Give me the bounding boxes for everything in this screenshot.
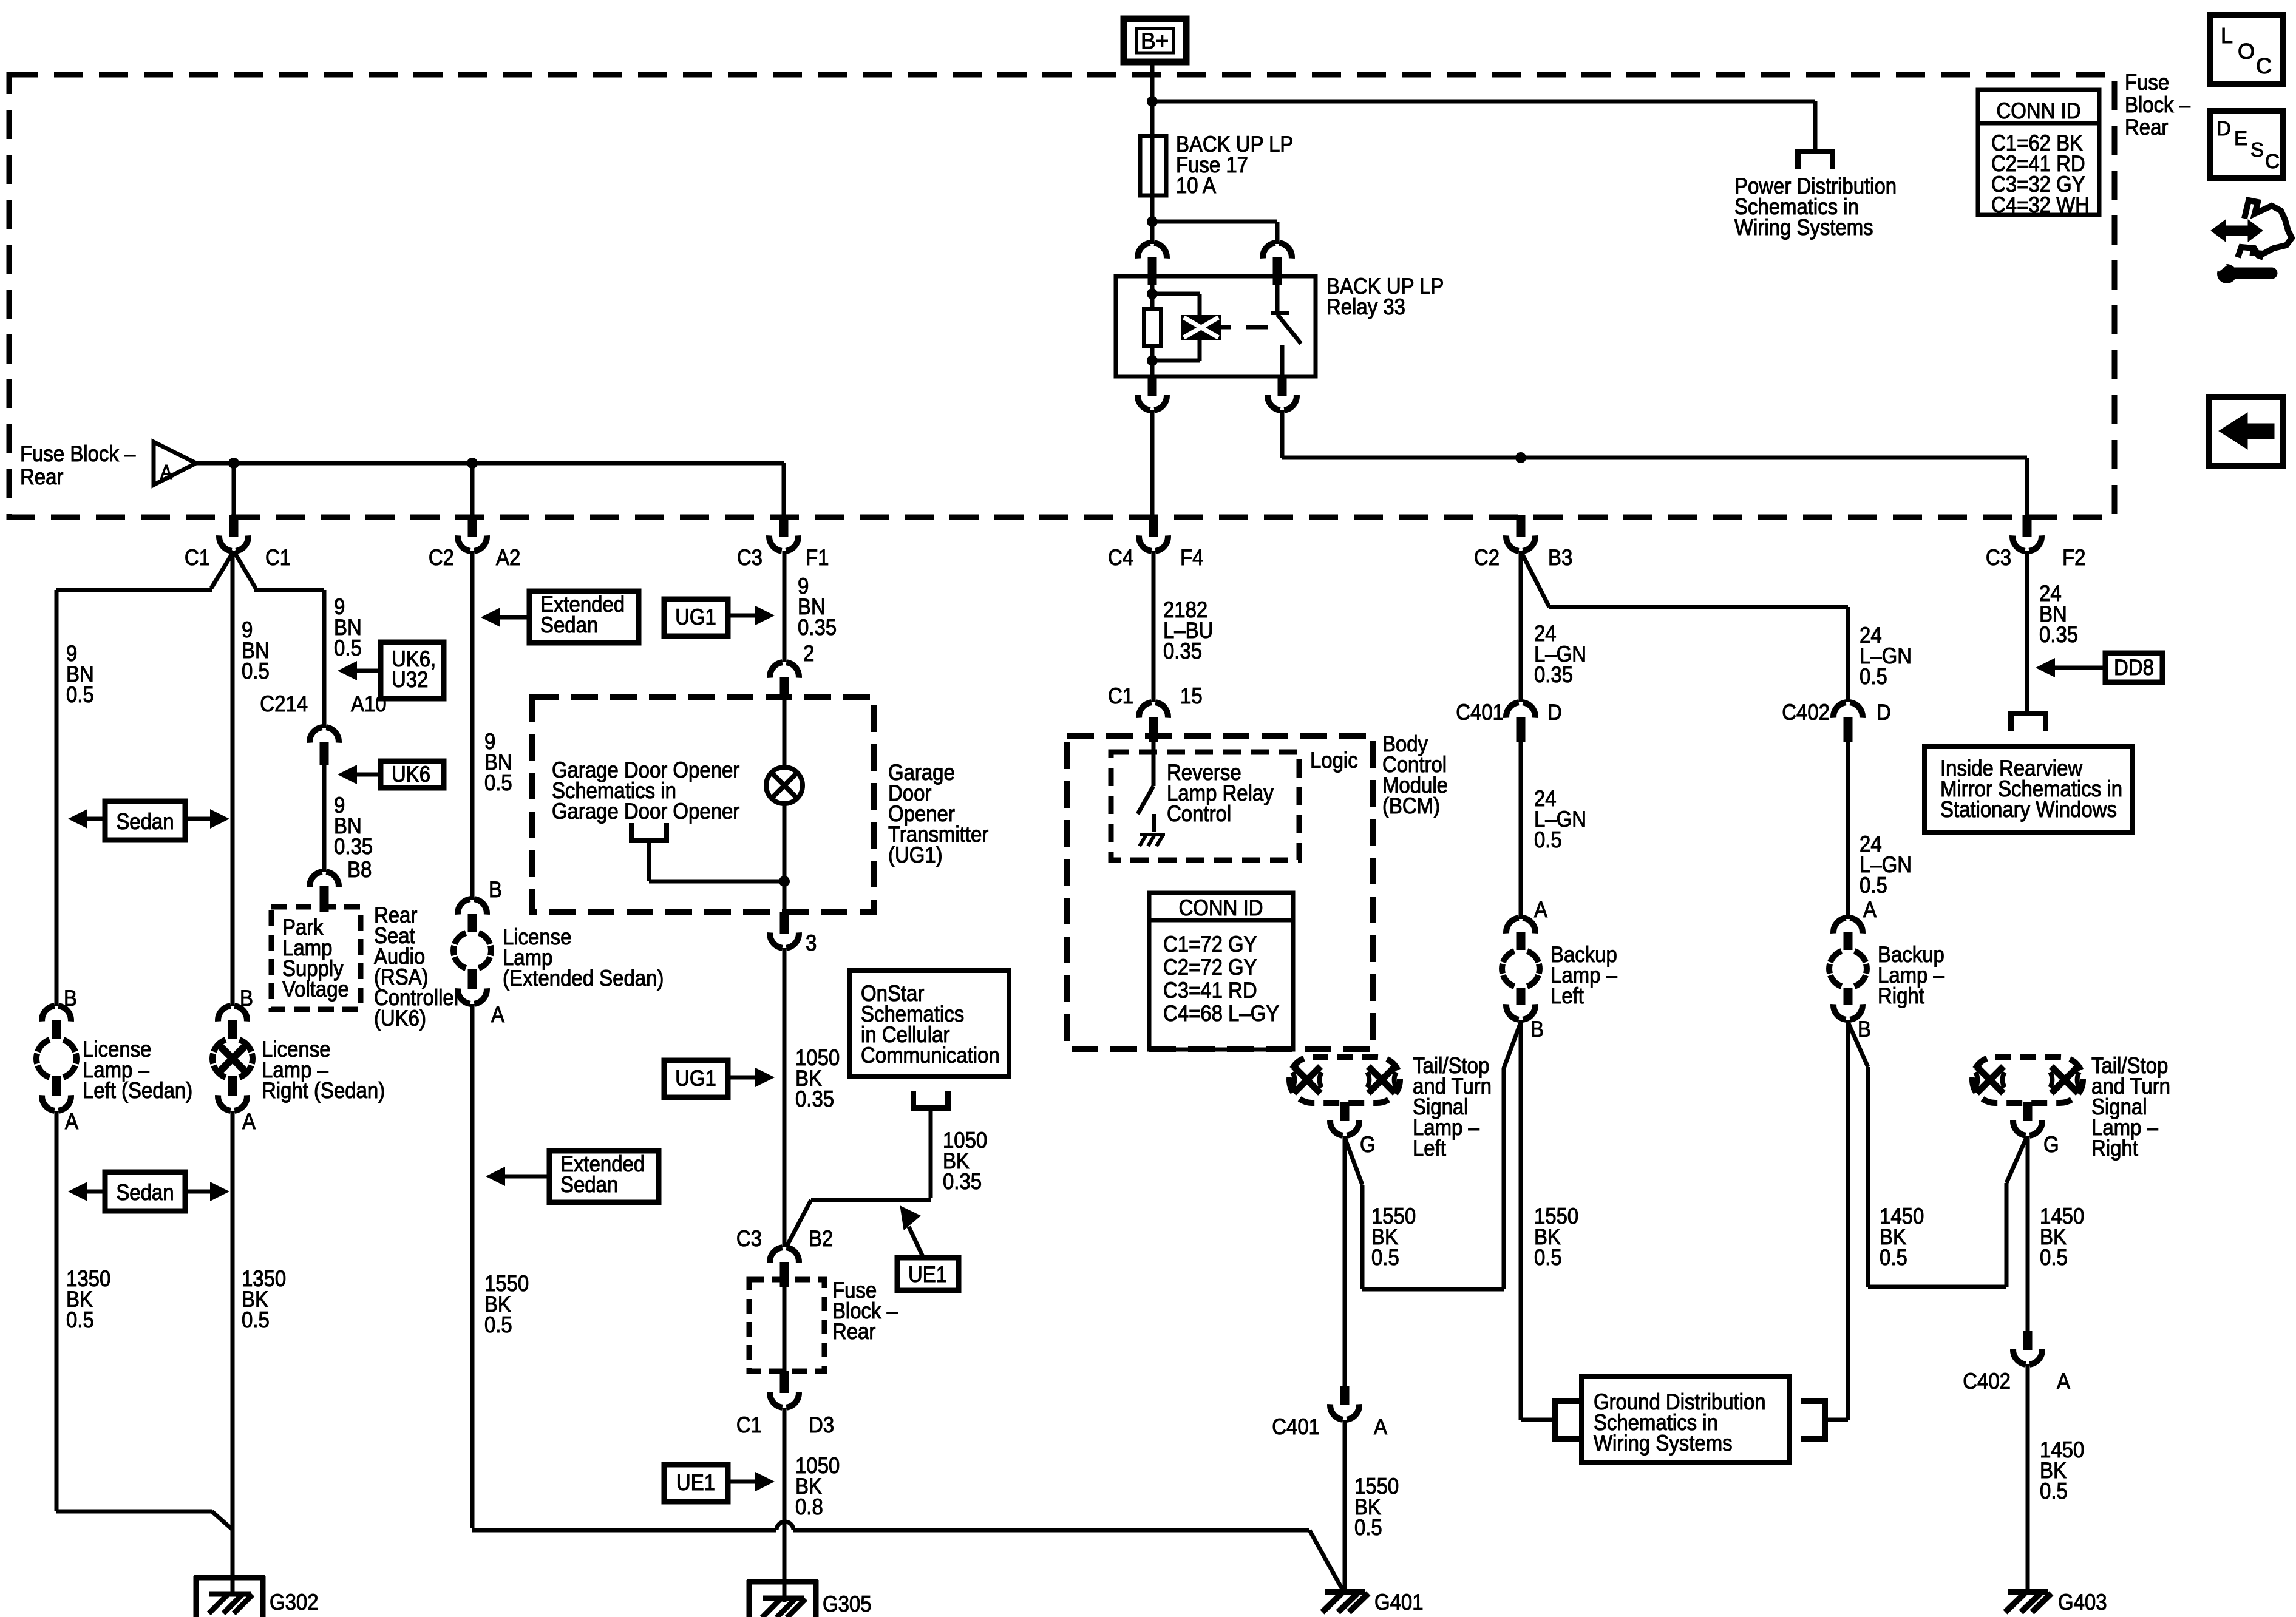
svg-text:0.5: 0.5 — [66, 682, 94, 707]
svg-text:D: D — [1877, 700, 1891, 725]
svg-text:C402: C402 — [1782, 700, 1830, 725]
svg-text:C2: C2 — [1474, 545, 1500, 570]
svg-text:15: 15 — [1180, 683, 1203, 708]
svg-text:B+: B+ — [1141, 29, 1169, 53]
svg-text:C4=32 WH: C4=32 WH — [1991, 192, 2090, 217]
svg-text:0.8: 0.8 — [795, 1494, 823, 1519]
svg-text:F2: F2 — [2062, 545, 2085, 570]
svg-text:A10: A10 — [351, 691, 387, 716]
svg-text:Right: Right — [1878, 983, 1924, 1008]
svg-text:C1: C1 — [185, 545, 210, 570]
svg-text:A: A — [242, 1109, 256, 1134]
svg-text:E: E — [2234, 127, 2247, 149]
svg-text:0.35: 0.35 — [798, 615, 837, 640]
svg-text:0.5: 0.5 — [334, 636, 362, 660]
svg-text:A: A — [1374, 1414, 1388, 1439]
svg-text:C4=68 L–GY: C4=68 L–GY — [1163, 1001, 1279, 1026]
svg-text:C: C — [2265, 150, 2280, 172]
svg-text:Sedan: Sedan — [560, 1172, 618, 1197]
svg-text:C401: C401 — [1272, 1414, 1320, 1439]
svg-text:D: D — [2216, 117, 2231, 140]
svg-text:Fuse Block –: Fuse Block – — [20, 441, 136, 466]
svg-text:C1: C1 — [736, 1412, 762, 1437]
svg-text:Fuse: Fuse — [2125, 70, 2169, 95]
svg-text:F1: F1 — [806, 545, 829, 570]
svg-text:Right (Sedan): Right (Sedan) — [262, 1078, 385, 1103]
svg-text:0.5: 0.5 — [1534, 1245, 1562, 1270]
svg-text:0.5: 0.5 — [1371, 1245, 1399, 1270]
svg-text:A: A — [1534, 897, 1548, 922]
svg-text:A: A — [160, 461, 172, 483]
svg-text:Sedan: Sedan — [540, 612, 598, 637]
svg-text:Rear: Rear — [832, 1319, 876, 1344]
svg-text:0.5: 0.5 — [1534, 827, 1562, 852]
svg-text:B2: B2 — [809, 1226, 833, 1251]
svg-text:(Extended Sedan): (Extended Sedan) — [503, 966, 664, 991]
svg-text:B: B — [489, 877, 502, 902]
svg-text:C1: C1 — [1108, 683, 1133, 708]
svg-text:C1=72 GY: C1=72 GY — [1163, 932, 1257, 957]
svg-text:UG1: UG1 — [675, 605, 716, 629]
svg-text:Voltage: Voltage — [282, 977, 349, 1002]
svg-text:DD8: DD8 — [2114, 655, 2154, 680]
svg-text:C1: C1 — [265, 545, 291, 570]
svg-text:0.5: 0.5 — [1880, 1245, 1907, 1270]
svg-text:L: L — [2221, 23, 2233, 48]
svg-text:A2: A2 — [496, 545, 520, 570]
svg-text:Right: Right — [2091, 1136, 2138, 1161]
svg-text:C3=41 RD: C3=41 RD — [1163, 978, 1257, 1003]
svg-text:F4: F4 — [1180, 545, 1203, 570]
svg-text:G: G — [2043, 1132, 2059, 1157]
svg-text:(UK6): (UK6) — [374, 1006, 426, 1031]
svg-text:B: B — [1530, 1017, 1544, 1042]
svg-text:C401: C401 — [1456, 700, 1504, 725]
svg-text:(UG1): (UG1) — [888, 842, 943, 867]
svg-text:Left: Left — [1413, 1136, 1446, 1161]
svg-text:0.35: 0.35 — [795, 1086, 834, 1111]
svg-text:Rear: Rear — [2125, 115, 2169, 140]
svg-text:0.35: 0.35 — [334, 834, 373, 859]
svg-text:Rear: Rear — [20, 464, 64, 489]
svg-text:C: C — [2256, 53, 2272, 78]
svg-text:UK6: UK6 — [392, 762, 430, 787]
svg-text:G302: G302 — [270, 1590, 319, 1615]
svg-text:D3: D3 — [809, 1412, 834, 1437]
svg-text:0.5: 0.5 — [2040, 1479, 2068, 1503]
svg-text:UG1: UG1 — [675, 1066, 716, 1091]
svg-text:Relay 33: Relay 33 — [1326, 294, 1405, 319]
svg-text:0.5: 0.5 — [1860, 873, 1887, 898]
svg-text:Stationary Windows: Stationary Windows — [1940, 797, 2117, 822]
svg-text:0.5: 0.5 — [1860, 664, 1887, 689]
svg-text:0.5: 0.5 — [242, 659, 270, 683]
svg-text:3: 3 — [806, 931, 817, 955]
svg-text:Block –: Block – — [2125, 92, 2190, 117]
svg-text:A: A — [65, 1109, 79, 1134]
svg-text:G305: G305 — [823, 1592, 872, 1616]
svg-text:Communication: Communication — [861, 1043, 1000, 1068]
svg-text:C3: C3 — [736, 1226, 762, 1251]
svg-text:0.5: 0.5 — [242, 1307, 270, 1332]
svg-text:C402: C402 — [1963, 1369, 2011, 1394]
svg-text:B3: B3 — [1548, 545, 1572, 570]
svg-text:B: B — [1858, 1017, 1871, 1042]
svg-text:G: G — [1360, 1132, 1376, 1157]
svg-text:Sedan: Sedan — [116, 1180, 174, 1205]
svg-text:G401: G401 — [1374, 1590, 1424, 1615]
svg-text:B8: B8 — [347, 857, 372, 882]
svg-text:0.35: 0.35 — [943, 1169, 982, 1194]
svg-text:0.5: 0.5 — [484, 1312, 512, 1337]
svg-text:Left (Sedan): Left (Sedan) — [83, 1078, 192, 1103]
svg-text:0.35: 0.35 — [1163, 639, 1202, 663]
svg-text:0.35: 0.35 — [2039, 622, 2078, 647]
svg-text:0.35: 0.35 — [1534, 662, 1573, 687]
svg-text:Wiring Systems: Wiring Systems — [1594, 1431, 1733, 1456]
svg-text:Logic: Logic — [1310, 748, 1358, 773]
svg-text:G403: G403 — [2058, 1590, 2107, 1615]
svg-text:Control: Control — [1167, 801, 1231, 826]
svg-text:UE1: UE1 — [676, 1470, 715, 1495]
svg-text:C3: C3 — [1986, 545, 2011, 570]
svg-text:A: A — [1863, 897, 1877, 922]
svg-text:C4: C4 — [1108, 545, 1133, 570]
svg-text:0.5: 0.5 — [484, 770, 512, 795]
svg-text:0.5: 0.5 — [1354, 1515, 1382, 1540]
svg-text:B: B — [64, 986, 77, 1011]
svg-text:C214: C214 — [260, 691, 308, 716]
svg-text:10 A: 10 A — [1176, 173, 1217, 198]
svg-text:CONN ID: CONN ID — [1179, 895, 1263, 920]
svg-text:2: 2 — [803, 641, 814, 666]
svg-text:B: B — [240, 986, 253, 1011]
svg-text:A: A — [491, 1002, 505, 1027]
svg-text:0.5: 0.5 — [66, 1307, 94, 1332]
svg-text:Wiring Systems: Wiring Systems — [1734, 215, 1873, 240]
svg-text:C3: C3 — [737, 545, 763, 570]
svg-text:D: D — [1547, 700, 1562, 725]
svg-text:Garage Door Opener: Garage Door Opener — [552, 799, 740, 824]
svg-text:C2: C2 — [429, 545, 454, 570]
svg-text:Sedan: Sedan — [116, 809, 174, 834]
svg-text:Left: Left — [1550, 983, 1584, 1008]
svg-text:S: S — [2250, 138, 2264, 161]
svg-text:U32: U32 — [392, 667, 428, 692]
svg-text:(BCM): (BCM) — [1382, 793, 1440, 818]
svg-text:UE1: UE1 — [908, 1262, 947, 1287]
svg-text:O: O — [2238, 39, 2255, 64]
svg-text:CONN ID: CONN ID — [1996, 98, 2080, 123]
svg-text:A: A — [2057, 1369, 2071, 1394]
svg-text:C2=72 GY: C2=72 GY — [1163, 955, 1257, 980]
svg-text:0.5: 0.5 — [2040, 1245, 2068, 1270]
